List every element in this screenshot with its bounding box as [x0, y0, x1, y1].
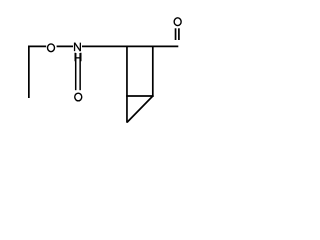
double bond C=O carbonyl (right line): [178, 28, 180, 40]
atom O1 ether oxygen: [48, 44, 55, 52]
double bond N=O (left line): [75, 53, 77, 90]
ring bond middle horizontal: [126, 95, 154, 97]
bond CH2-O (horizontal to ether O): [28, 45, 46, 47]
atom N: [75, 43, 81, 52]
bond CH3-CH2 (ethyl vertical): [28, 46, 30, 98]
atom O2 (oxygen below N): [75, 93, 82, 101]
atom H on nitrogen: [75, 53, 82, 62]
atom O3 carbonyl oxygen: [174, 18, 181, 26]
double bond N=O (right line): [79, 53, 81, 90]
bond O-N: [57, 45, 73, 47]
ring bond right vertical: [152, 46, 154, 97]
double bond C=O carbonyl (left line): [175, 28, 177, 40]
bond N to chain / ring top edge: [82, 45, 178, 47]
ring bond left vertical: [126, 46, 128, 123]
ring bond diagonal (cyclopropane): [127, 96, 153, 122]
